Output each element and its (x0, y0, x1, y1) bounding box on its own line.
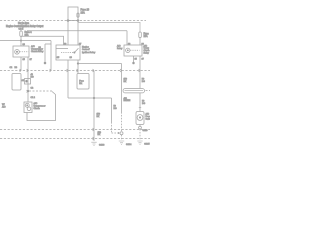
svg-text:A/C: A/C (31, 45, 35, 48)
svg-text:Hot In Run: Hot In Run (18, 22, 30, 25)
connector symbol on D2 at x121.5 (120, 69, 121, 72)
splice circle on x121.5 (120, 132, 123, 135)
wire fuse F4 down to relay K1 (20, 36, 22, 46)
wire from fuse right pin down to relay K2 (77, 21, 79, 46)
wire x111.5 down from H5 (111, 98, 113, 122)
hot bus H2 (27, 30, 127, 32)
right fuse capsule (139, 32, 142, 38)
junction block right (tall box) (77, 74, 89, 90)
underhood fuse block bottom dashed border (0, 70, 150, 72)
svg-text:C2: C2 (31, 88, 35, 90)
wire x51 down to D2 (50, 44, 52, 71)
connector symbol on D2 at x140 (139, 69, 140, 72)
svg-text:DG: DG (142, 103, 146, 105)
relay K1 internal dashed link (20, 51, 29, 53)
PCM border end hook to clutch return wire (52, 92, 56, 95)
svg-text:Compressor: Compressor (34, 104, 46, 107)
svg-text:Engine Control/Ignition Relay: Engine Control/Ignition Relay Output (6, 25, 44, 28)
fuse output bus to K2 (21, 36, 64, 45)
svg-text:BK: BK (97, 116, 100, 118)
svg-text:Relay: Relay (117, 48, 123, 50)
relay K2 inner header line (56, 48, 68, 50)
wire x140 below capsule (139, 93, 141, 112)
dashed link to splice S2 (112, 132, 118, 134)
splice dot S1 (44, 62, 46, 64)
svg-text:Relay: Relay (144, 53, 150, 55)
svg-text:A/C: A/C (34, 102, 38, 105)
node H3-x21 (20, 40, 21, 41)
svg-text:A/C: A/C (2, 105, 6, 108)
svg-text:G103: G103 (99, 145, 105, 147)
A/C compressor clutch box (24, 102, 32, 113)
connector symbol on D2 at x68 (67, 69, 68, 72)
svg-text:Compressor: Compressor (31, 48, 43, 51)
connector symbol on D2 at x51 (50, 69, 51, 72)
svg-text:87: 87 (79, 43, 82, 45)
top fuse box (68, 7, 78, 21)
svg-text:86: 86 (70, 57, 73, 59)
wire K1 pin 87 down (27, 57, 29, 71)
svg-text:DG: DG (142, 81, 146, 83)
connector C100 box with dot on wire x28 (25, 79, 31, 85)
svg-text:S110: S110 (143, 130, 149, 132)
relay K3 coil (126, 48, 130, 52)
wire H2 corner down to right relay coil (126, 31, 128, 45)
tick on x140 (139, 107, 141, 109)
PCM dashed border right stub (146, 90, 151, 92)
top fuse element (77, 13, 79, 17)
svg-text:85: 85 (57, 57, 60, 59)
bus H3 (0, 40, 51, 42)
wire x111.5 dashed continuation (111, 122, 113, 133)
svg-text:C1 2: C1 2 (31, 97, 36, 99)
svg-text:BK/WH: BK/WH (124, 100, 131, 102)
node H4-x78 (77, 63, 79, 65)
wire from fuse left pin down to relay K2 (67, 21, 69, 46)
relay K2 (engine control/ignition relay) box (56, 45, 80, 60)
bottom dashed border 2 (0, 138, 150, 140)
svg-text:B3: B3 (15, 67, 18, 69)
svg-text:BK: BK (124, 81, 127, 83)
wire K2 pin down through H4 junction into junction block (77, 60, 79, 74)
ground G103 symbol (91, 142, 96, 146)
connector symbol on D1 at x78 (77, 20, 79, 22)
wire x94 from D2 down to ground (93, 71, 95, 142)
underhood fuse block top dashed border (0, 20, 146, 22)
wire H4 corner down at x121.5 (121, 64, 123, 71)
svg-text:Control/: Control/ (82, 48, 90, 51)
svg-text:Switch: Switch (146, 117, 151, 120)
wire below pressure switch (139, 125, 141, 127)
wire clutch return to PCM (27, 95, 56, 121)
junction block left (tall box) (12, 74, 21, 91)
connector symbol on D2 at x28 (27, 69, 28, 72)
svg-text:10A: 10A (144, 35, 149, 38)
relay K2 switch contact (74, 48, 78, 52)
wire K3 pin 85 stub to splice dot (133, 56, 135, 62)
svg-text:10A: 10A (81, 11, 86, 14)
connector symbol on D2 at x94 (93, 69, 94, 72)
svg-text:87: 87 (142, 58, 145, 60)
wire x140 to ground (dashed) (139, 129, 141, 140)
wire K3 pin 87 down through D2 (139, 56, 141, 89)
relay K3 internal dashed link (130, 49, 139, 51)
relay K3 (A/C clutch relay) box (124, 45, 142, 56)
splice circle on x140 (139, 126, 142, 129)
hot bus H1 (to right fuse) (78, 22, 140, 32)
connector symbol on D4 at x94 (93, 128, 94, 131)
connector symbol on D5 at x94 (93, 137, 94, 140)
svg-text:Blk: Blk (79, 83, 83, 85)
svg-text:Clutch: Clutch (34, 107, 41, 110)
svg-text:85: 85 (135, 58, 138, 60)
A/C compressor clutch coil circles (25, 103, 29, 107)
svg-text:87: 87 (30, 59, 33, 61)
arrowhead into splice S2 (118, 132, 120, 134)
relay K1 (A/C compressor clutch relay) box (13, 46, 29, 57)
PCM dashed border left segment (29, 90, 52, 92)
fuse F4 wire top (20, 30, 22, 31)
wire from K2 down at x68 to H5 (67, 71, 69, 99)
bottom dashed border 1 (0, 129, 150, 131)
svg-text:G105: G105 (144, 143, 150, 145)
wire K2 pin down to D2 at x68 (67, 60, 69, 71)
wire x121.5 below splice (dashed) (121, 135, 123, 140)
splice dot at end of K3 stub (133, 62, 135, 64)
wire x45 down to splice (44, 44, 46, 63)
svg-text:85: 85 (23, 59, 26, 61)
wire x121.5 from D2 down (121, 71, 123, 113)
connector symbol on D2 at x21 (20, 69, 21, 72)
wire K1 pin 85 down (20, 57, 22, 71)
wire jog from H3 to coil drop (45, 41, 51, 44)
fuse F4 capsule (20, 31, 23, 36)
connector symbol on D3 at x28 (27, 90, 28, 93)
svg-text:86: 86 (23, 44, 26, 46)
node H5-x94 (93, 97, 95, 99)
bus H4 (78, 63, 122, 65)
node D3a-x28 (27, 90, 29, 92)
wire x28 down to clutch (27, 71, 29, 103)
svg-text:C2: C2 (10, 67, 14, 69)
svg-text:DG: DG (114, 108, 118, 110)
bus H5 (68, 97, 112, 99)
relay K2 internal dashed link (61, 52, 74, 54)
connector symbol on D2 at x78 (77, 69, 78, 72)
svg-text:DG: DG (31, 76, 35, 78)
ground G104 symbol (119, 141, 124, 145)
wire right fuse down to relay K3 (139, 38, 141, 45)
svg-text:Ignition Relay: Ignition Relay (82, 51, 96, 54)
A/C pressure switch component (136, 112, 144, 125)
svg-text:BK: BK (98, 134, 101, 136)
connector symbol on D1 at x68 (67, 20, 69, 22)
relay K1 coil (15, 50, 20, 55)
wire x121.5 dashed continuation (121, 112, 123, 132)
ground G105 symbol (137, 141, 142, 145)
svg-text:G104: G104 (126, 144, 132, 146)
inline connector capsule C125 (123, 89, 145, 93)
